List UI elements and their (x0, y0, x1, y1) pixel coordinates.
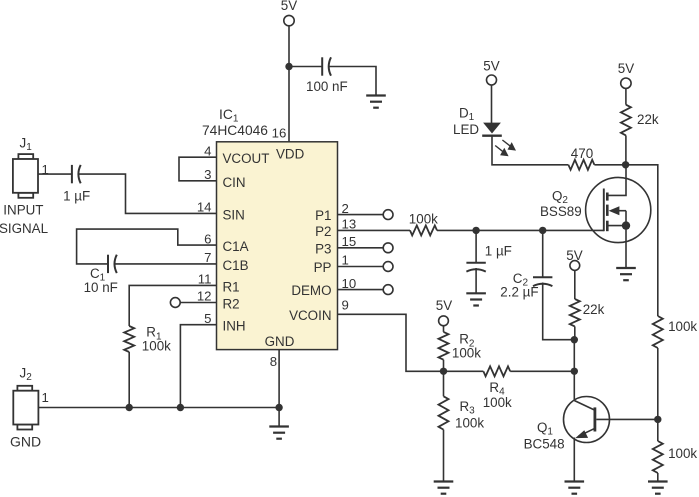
wire 5V to R2 (443, 326, 445, 332)
svg-text:2: 2 (342, 201, 349, 216)
junction divider node (R2/R3/R4/VCOIN) (440, 368, 447, 375)
svg-text:VCOIN: VCOIN (289, 308, 331, 323)
svg-text:GND: GND (10, 434, 41, 450)
power 5V terminal (top right) (618, 61, 634, 89)
resistor R1 100k (124, 325, 171, 354)
J2 pin 1 number (42, 390, 49, 405)
svg-text:R1: R1 (223, 279, 240, 294)
LED light arrow 2 (495, 146, 508, 157)
resistor R2 100k (439, 332, 482, 361)
wire junction to C2 (542, 230, 544, 276)
junction gate line / C2 (539, 227, 546, 234)
wire 5V terminal to VDD node (288, 26, 290, 67)
ground rail wire J2 to IC ground (38, 407, 279, 409)
wire junction to 1 uF cap (475, 230, 477, 262)
junction VDD node (285, 63, 292, 70)
wire 100k to base node (657, 348, 659, 419)
ground (Q1 emitter) (565, 482, 585, 494)
svg-text:3: 3 (204, 167, 211, 182)
svg-text:C1B: C1B (223, 258, 249, 273)
svg-text:100k: 100k (142, 338, 171, 353)
IC1 pin 8 number (270, 354, 277, 369)
connector J2 (13, 386, 38, 430)
LED D1 (453, 106, 502, 138)
svg-text:DEMO: DEMO (291, 283, 331, 298)
wire lower 100k to ground (657, 473, 659, 482)
wire R1 pin 11 to resistor R1 (129, 285, 216, 326)
wire VCOUT pin 4 to CIN pin 3 (feedback strap) (179, 157, 217, 181)
wire C2 to 22k node (543, 283, 575, 340)
svg-text:5V: 5V (618, 61, 634, 76)
wire 5V to LED anode (491, 85, 493, 123)
svg-text:CIN: CIN (223, 175, 246, 190)
svg-text:100k: 100k (668, 319, 697, 334)
resistor 100k (P2 series) (409, 212, 438, 236)
transistor Q2 BSS89 (n-channel MOSFET) (586, 165, 651, 243)
svg-text:5: 5 (204, 311, 211, 326)
ground (right rail) (648, 482, 668, 494)
svg-text:10: 10 (342, 276, 357, 291)
wire J1 to input cap (38, 173, 72, 175)
junction Q2 source/body (622, 221, 630, 229)
svg-text:100 nF: 100 nF (306, 79, 348, 94)
power 5V terminal (above R2) (436, 298, 452, 326)
power 5V terminal (top, VDD supply) (281, 0, 297, 26)
junction drain node (622, 161, 629, 168)
svg-text:VCOUT: VCOUT (223, 151, 270, 166)
J1 pin 1 number (42, 162, 49, 177)
transistor Q1 BC548 (npn) (564, 397, 658, 443)
IC1 VDD pin name (276, 147, 305, 162)
wire R1 to ground rail (128, 352, 130, 408)
capacitor C2 2.2 uF (500, 271, 552, 300)
wire 22k to C2 node (574, 326, 576, 339)
svg-text:BC548: BC548 (524, 437, 565, 452)
capacitor C1 10 nF (84, 255, 118, 295)
wire INH pin 5 to ground rail (180, 325, 216, 408)
wire 470 to drain node (594, 164, 625, 166)
open terminal P3 pin 15 (338, 243, 394, 253)
svg-text:4: 4 (204, 143, 211, 158)
svg-text:5V: 5V (436, 298, 452, 313)
capacitor 1 uF (input coupling) (63, 165, 90, 204)
svg-text:5V: 5V (281, 0, 297, 13)
wire VDD node down to IC1 pin 16 (288, 67, 290, 142)
svg-text:14: 14 (197, 200, 212, 215)
resistor 22k (Q1 collector load) (570, 299, 605, 326)
Q1 label (524, 420, 565, 452)
connector J1 (13, 154, 38, 198)
capacitor 100 nF (decoupling) (306, 57, 348, 94)
ground (1 uF filter cap) (466, 293, 486, 305)
svg-text:13: 13 (342, 217, 357, 232)
svg-text:P1: P1 (315, 208, 331, 223)
power 5V terminal (LED) (483, 59, 499, 85)
svg-text:J1: J1 (20, 136, 33, 154)
svg-text:C1A: C1A (223, 239, 249, 254)
svg-text:1 µF: 1 µF (63, 189, 90, 204)
LED light arrow 1 (502, 140, 516, 151)
Q2 label (540, 189, 582, 220)
junction R1/rail (126, 404, 133, 411)
ground (main) (269, 427, 289, 439)
wire LED cathode to 470 (492, 136, 568, 165)
svg-text:INH: INH (223, 319, 246, 334)
open terminal DEMO pin 10 (338, 285, 394, 295)
IC1 right pin names (289, 208, 331, 323)
resistor R4 100k (483, 366, 512, 410)
IC1 GND pin name (265, 334, 295, 349)
IC1 pin 16 number (272, 126, 287, 141)
svg-text:D1: D1 (459, 106, 475, 124)
resistor R3 100k (439, 396, 485, 430)
junction INH/rail (177, 404, 184, 411)
wire Q1 emitter to ground (573, 438, 575, 482)
svg-text:BSS89: BSS89 (540, 204, 582, 219)
IC1 right pin numbers (342, 201, 357, 313)
junction C2 / 22k / collector (571, 336, 578, 343)
svg-text:1: 1 (42, 390, 49, 405)
wire drain node to right rail (626, 165, 658, 316)
junction GND node (275, 404, 282, 411)
power 5V terminal (mid right) (566, 248, 582, 271)
ground (decoupling cap) (366, 96, 386, 108)
wire node down to R4 node (573, 340, 575, 372)
resistor 100k (upper right) (653, 316, 698, 348)
svg-text:8: 8 (270, 354, 277, 369)
open terminal PP pin 1 (338, 262, 394, 272)
IC1 left pin names (223, 151, 270, 334)
wire base node to lower 100k (657, 419, 659, 441)
wire divider node to R4 (444, 370, 484, 372)
svg-text:IC1: IC1 (219, 107, 239, 125)
svg-text:5V: 5V (483, 59, 499, 74)
wire divider node to R3 (443, 371, 445, 396)
junction R4 / collector line (571, 368, 578, 375)
svg-text:74HC4046: 74HC4046 (202, 123, 268, 138)
svg-text:INPUT: INPUT (3, 202, 43, 217)
svg-text:7: 7 (204, 250, 211, 265)
svg-text:R3: R3 (460, 399, 476, 417)
svg-text:PP: PP (314, 260, 332, 275)
svg-text:P2: P2 (315, 224, 331, 239)
wire P2 pin 13 to 100k (338, 229, 411, 231)
svg-text:100k: 100k (409, 212, 438, 227)
svg-text:470: 470 (571, 146, 593, 161)
wire VDD node to decoupling cap (289, 66, 322, 68)
svg-text:100k: 100k (455, 416, 484, 431)
svg-text:Q1: Q1 (537, 420, 553, 438)
wire input cap to SIN pin 14 (78, 174, 217, 213)
ground (R3) (434, 482, 454, 494)
svg-text:10 nF: 10 nF (84, 280, 118, 295)
svg-text:5V: 5V (566, 248, 582, 263)
svg-text:11: 11 (198, 272, 212, 287)
resistor 470 (568, 146, 594, 170)
wire IC1 GND pin 8 (278, 350, 280, 427)
wire 5V to 22k (mid) (574, 270, 576, 299)
wire VCOIN pin 9 to divider node (338, 314, 444, 371)
wire C1 to C1B pin 7 (114, 263, 217, 265)
svg-text:2.2 µF: 2.2 µF (500, 285, 538, 300)
resistor 22k (drain load) (621, 105, 659, 136)
svg-text:22k: 22k (583, 302, 605, 317)
wire 22k to drain node (625, 135, 627, 164)
wire R2 to divider node (443, 360, 445, 372)
label INPUT SIGNAL (0, 202, 48, 236)
svg-text:15: 15 (342, 234, 357, 249)
svg-text:100k: 100k (483, 395, 512, 410)
svg-text:9: 9 (342, 298, 349, 313)
svg-text:VDD: VDD (276, 147, 305, 162)
IC1 reference label (202, 107, 268, 138)
J1 label (20, 136, 33, 154)
IC1 left pin numbers (197, 143, 212, 326)
svg-text:1 µF: 1 µF (485, 244, 512, 259)
wire C1A pin 6 to C1 (77, 229, 217, 264)
wire 5V to 22k (top) (625, 88, 627, 104)
junction base node (654, 416, 661, 423)
svg-text:LED: LED (453, 122, 479, 137)
wire 100k to Q2 gate (437, 229, 604, 231)
label GND (J2) (10, 434, 41, 450)
svg-text:6: 6 (204, 231, 211, 246)
svg-text:P3: P3 (315, 241, 331, 256)
svg-text:12: 12 (197, 289, 212, 304)
svg-text:GND: GND (265, 334, 295, 349)
open terminal P1 pin 2 (338, 210, 394, 220)
svg-text:R2: R2 (223, 297, 240, 312)
svg-text:SIN: SIN (223, 207, 245, 222)
wire R3 to ground (443, 430, 445, 482)
svg-text:1: 1 (342, 253, 349, 268)
resistor 100k (lower right) (653, 441, 698, 473)
svg-text:16: 16 (272, 126, 287, 141)
junction gate line / 1 uF filter cap (472, 227, 479, 234)
svg-text:J2: J2 (20, 366, 33, 384)
wire 1 uF cap to ground (475, 268, 477, 293)
open terminal R2 pin 12 (170, 298, 216, 308)
wire R4 to collector node (510, 370, 574, 372)
svg-text:22k: 22k (637, 112, 659, 127)
J2 label (20, 366, 33, 384)
IC1 74HC4046 body (217, 142, 338, 350)
svg-text:100k: 100k (668, 446, 697, 461)
ground (Q2 source) (616, 268, 636, 280)
svg-text:SIGNAL: SIGNAL (0, 221, 48, 236)
wire node down to Q1 collector (573, 371, 575, 400)
capacitor 1 uF (filter) (466, 244, 511, 272)
wire 100 nF to ground (328, 67, 376, 96)
wire Q2 source to ground (625, 226, 627, 268)
svg-text:100k: 100k (452, 345, 481, 360)
